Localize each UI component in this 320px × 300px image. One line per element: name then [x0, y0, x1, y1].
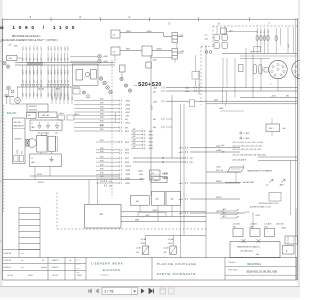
connector A15 label: [125, 166, 131, 168]
svg-text:PARTIE TOURNANTE: PARTIE TOURNANTE: [157, 272, 196, 276]
wire into connector A12: [96, 152, 119, 154]
terminal triangle 7: [47, 84, 50, 87]
svg-text:+A6M: +A6M: [287, 43, 290, 48]
svg-text:w467: w467: [214, 99, 218, 101]
bus W87: [121, 216, 206, 218]
connector A7 label: [125, 122, 130, 124]
net label =S20+S20: [133, 82, 162, 88]
wire into connector A2: [74, 104, 119, 106]
svg-text:W4: W4: [264, 30, 266, 33]
toolbar icon b: [169, 288, 175, 294]
svg-text:+4143: +4143: [255, 215, 260, 217]
svg-text:-DB2: -DB2: [264, 226, 268, 228]
svg-text:-W401: -W401: [64, 46, 66, 51]
left frame row letter D: [0, 181, 2, 183]
wire into connector A5: [74, 115, 119, 117]
vertical x253 lower: [252, 212, 254, 228]
sheet title M 1090 / 1100: [0, 25, 78, 31]
below-bus drop 8: [50, 65, 52, 84]
arrow symbol a: [266, 180, 274, 187]
svg-text:M: M: [17, 100, 19, 103]
svg-text:+GR,+GT,+GN,+GM,+GNT,+GN,+GNT,: +GR,+GT,+GN,+GM,+GNT,+GN,+GNT,+GNL: [232, 155, 266, 157]
lower LMWB box: [30, 154, 62, 167]
drop wire right label 6: [72, 97, 74, 100]
tier2 below drop 12: [64, 87, 66, 99]
header box LMB A6 text: [42, 114, 49, 117]
block -A3 drop a: [88, 180, 90, 205]
small circ a: [82, 91, 85, 94]
wire into connector A16: [96, 169, 119, 171]
motor pump outline: [25, 139, 29, 146]
svg-text:+W132: +W132: [140, 243, 145, 245]
wire label WA11: [100, 148, 104, 150]
wire into connector A1: [74, 100, 119, 102]
rail R3 wire: [206, 170, 240, 172]
wire label WA4: [100, 110, 104, 112]
bus lamp 3: [35, 62, 38, 65]
connector A4 label: [125, 112, 130, 114]
wire label column 8 lower (rotated): [51, 58, 53, 61]
grid stub a: [216, 26, 218, 35]
block -A3 top pins b: [104, 184, 111, 187]
terminal box W500: [27, 104, 48, 112]
svg-text:+W40: +W40: [125, 104, 130, 106]
svg-text:W11: W11: [125, 131, 129, 133]
svg-text:5516-051.10.00.001.005: 5516-051.10.00.001.005: [247, 269, 278, 273]
rounded box grid a: [214, 35, 220, 41]
wire label WA6: [100, 117, 104, 119]
svg-text:xxxx: xxxx: [77, 268, 80, 270]
rev table empty row line 7: [19, 243, 40, 245]
tier2 below drop 11: [60, 87, 62, 99]
svg-text:s/u: s/u: [21, 267, 23, 269]
main bus lower: [15, 64, 115, 66]
label +A142: [99, 124, 104, 127]
vertical net label W476: [152, 105, 154, 110]
terminal triangle 13: [67, 84, 70, 87]
label +A131: [255, 215, 260, 217]
device -A6 box: [130, 196, 149, 206]
tiny text under dashed box: [259, 202, 278, 205]
fuse F3: [239, 65, 244, 72]
svg-text:W76: W76: [100, 117, 104, 119]
valve drop to bus a: [34, 167, 36, 180]
title block lower line: [225, 274, 297, 276]
svg-text:REMPLACE →: REMPLACE →: [228, 269, 240, 272]
tr right drop label: [287, 43, 290, 48]
ruler tick b: [99, 17, 101, 21]
main bus upper: [15, 62, 115, 64]
svg-text:+GL5,+G,+GL5,+G,+GL5,+GL5,+G,+: +GL5,+G,+GL5,+G,+GL5,+GL5,+G,+GL5: [232, 142, 263, 144]
wire label W72: [126, 49, 131, 51]
wire into connector B5: [131, 144, 143, 146]
rev table vline x75: [74, 257, 76, 280]
tr vertical x235: [234, 58, 236, 98]
ruler number 2: [30, 15, 32, 19]
label W67: [56, 88, 60, 90]
svg-text:W9: W9: [125, 127, 128, 129]
page input dropdown sep: [131, 287, 133, 294]
xbox 2 labels left: [163, 246, 169, 254]
header box K20: [58, 115, 65, 120]
rev table empty row line 4: [19, 225, 40, 227]
top distribution box: [30, 120, 62, 130]
below-bus label 9b (rotated): [54, 80, 56, 83]
stub lines y111: [220, 110, 244, 112]
tr lamp label 1: [257, 30, 259, 33]
wire label column 3 upper (rotated): [30, 46, 32, 51]
svg-text:+A6D|: +A6D|: [279, 184, 284, 187]
wide box under A6: [138, 212, 166, 217]
terminal triangle 12: [63, 84, 66, 87]
wire W65 rail: [222, 53, 298, 55]
svg-text:· W20: · W20: [13, 45, 18, 47]
bus W87 label: [146, 215, 151, 217]
tr right drop 2: [293, 27, 295, 54]
svg-text:→A6: →A6: [282, 127, 286, 130]
drop wire right 5: [67, 87, 69, 104]
tr lamp drop 2: [260, 28, 262, 54]
drop wire right 2: [55, 87, 57, 104]
svg-text:w87 /: w87 /: [146, 215, 151, 217]
terminal triangle 3: [29, 84, 32, 87]
label +m3: [204, 39, 209, 41]
partie tournante: [157, 272, 196, 276]
svg-text:24.01.08: 24.01.08: [4, 253, 11, 255]
svg-text:DATUM: DATUM: [52, 274, 58, 277]
svg-text:GEAR23: GEAR23: [52, 266, 59, 269]
cabinet tall box: [13, 118, 26, 164]
svg-text:LM/B: LM/B: [31, 127, 35, 129]
rev row line d: [3, 270, 87, 272]
svg-text:MOTEUR: MOTEUR: [15, 139, 23, 141]
liebherr text: [91, 261, 123, 265]
ruler tick e: [248, 17, 250, 21]
tier2 below label 2 (rotated): [26, 93, 28, 96]
tiny net list row 1: [232, 142, 263, 144]
wire label column 10 upper (rotated): [58, 46, 60, 51]
rail y90.5 connector: [194, 90, 196, 92]
ruler tick a: [50, 17, 52, 21]
drop x225 to label: [225, 103, 227, 106]
wire fuse rail2: [240, 55, 298, 57]
wire xbox1 up: [145, 235, 147, 246]
below-bus label 1a (rotated): [22, 70, 24, 75]
svg-text:W13: W13: [125, 142, 129, 144]
svg-text:=SD+AD5+AD 5: =SD+AD5+AD 5: [240, 250, 253, 253]
label +A200: [139, 178, 145, 181]
connector B6 label: [148, 148, 153, 150]
block -A3 top pins a: [104, 180, 111, 183]
below-bus drop 7: [47, 65, 49, 84]
ruler number 7: [268, 22, 270, 26]
connector A14: [119, 161, 121, 163]
svg-text:+W30: +W30: [125, 170, 130, 172]
wire label WA14: [100, 160, 104, 162]
wire label column 7 lower (rotated): [48, 58, 50, 61]
svg-text:-/5: -/5: [31, 158, 33, 160]
lamp K2b: [124, 84, 127, 87]
tr vertical x227: [226, 58, 228, 88]
below-bus label 13b (rotated): [68, 80, 70, 83]
tr lamp drop 4: [267, 28, 269, 54]
svg-text:BI-DIRECTIONNEL TO 4#3: BI-DIRECTIONNEL TO 4#3: [250, 206, 271, 208]
wire C+A73: [240, 132, 250, 135]
connector B2: [143, 133, 145, 135]
wire label WA5: [100, 114, 104, 116]
rail y103: [206, 103, 298, 105]
row +A0 connector: [162, 126, 164, 128]
wire label WA3: [100, 107, 104, 109]
connector B3: [143, 137, 145, 139]
svg-text:W76: W76: [100, 181, 104, 183]
svg-text:+W47: +W47: [125, 112, 130, 114]
svg-text:+D: +D: [204, 34, 207, 36]
svg-text:+A67: +A67: [219, 107, 223, 110]
block -A3 drop b: [97, 180, 99, 205]
vertical net W476 x151: [150, 55, 152, 196]
rev date 2: [4, 260, 24, 262]
tiny text BI-DIRECTIONNEL: [250, 206, 271, 208]
bus W151: [30, 175, 120, 177]
svg-text:+W9n: +W9n: [179, 148, 184, 150]
svg-text:MÉCHOIRE DE LEVAGE 1: MÉCHOIRE DE LEVAGE 1: [12, 35, 42, 38]
display box lead: [271, 118, 273, 124]
lamp diag 1: [99, 77, 103, 81]
vert line x115: [114, 55, 116, 61]
title block vline x297: [296, 258, 298, 281]
ruler tick d: [198, 17, 200, 21]
wire label WA1: [100, 99, 104, 101]
svg-text:W22: W22: [60, 97, 62, 100]
bus lamp 2: [31, 62, 34, 65]
connector A13: [119, 157, 121, 159]
wire into connector B4: [131, 141, 143, 143]
row +A2 label: [153, 118, 156, 121]
component box x148: [146, 62, 152, 68]
wire label W473: [126, 31, 132, 33]
svg-text:+W2: +W2: [132, 129, 136, 131]
below-bus drop 5: [36, 65, 38, 84]
cabinet text MOTEUR: [15, 139, 23, 141]
net tag =S20: [162, 172, 169, 175]
wire into connector B3: [131, 137, 143, 139]
sheet right border: [297, 19, 299, 281]
svg-text:W76: W76: [100, 140, 104, 142]
connector mid label y162: [190, 162, 193, 164]
connector A16 label: [125, 170, 130, 172]
wire into connector B6: [131, 147, 143, 149]
cabinet header row: [13, 127, 26, 129]
node at W473 bend: [164, 33, 173, 37]
DB box 1 labels: [233, 223, 241, 229]
rail y90.5: [166, 90, 298, 92]
svg-text:+A20: +A20: [153, 87, 157, 90]
drop wire right label 1: [52, 97, 54, 100]
rail R1 wire: [179, 146, 241, 150]
svg-text:W17 ~B: W17 ~B: [216, 170, 224, 172]
wire label column 1 upper (rotated): [22, 46, 24, 51]
bus W151 label: [37, 174, 42, 176]
motor aux circle a: [26, 140, 29, 143]
rev cell GEAR23 b: [52, 266, 59, 269]
connector B4 label: [148, 141, 153, 143]
label +D: [204, 34, 207, 36]
J1 bottom drop: [277, 79, 279, 91]
tr lamp 4: [267, 35, 269, 41]
tier2 below label 9 (rotated): [54, 93, 56, 96]
svg-text:-A3: -A3: [99, 213, 103, 216]
svg-text:-W500 W21: -W500 W21: [29, 106, 38, 108]
svg-text:+m3: +m3: [204, 39, 209, 41]
box +A57 top: [221, 28, 227, 34]
rail y93 label: [185, 90, 189, 93]
lamp diag 2: [103, 81, 107, 85]
tr lamp 3: [263, 35, 265, 41]
wire into connector A19: [96, 182, 119, 184]
svg-text:+ A50: + A50: [152, 59, 157, 62]
connector A1 label: [125, 100, 130, 102]
svg-text:· W20: · W20: [8, 58, 13, 60]
DB1 drop: [271, 132, 273, 137]
svg-text:+W2: +W2: [132, 133, 136, 135]
svg-text:NAME: NAME: [28, 274, 34, 277]
svg-text:888 1: 888 1: [269, 128, 275, 130]
header label right a: [59, 112, 65, 115]
below-bus label 8a (rotated): [51, 70, 53, 75]
left frame row letter B: [0, 61, 2, 63]
display box DB1: [266, 124, 280, 132]
svg-text:+A6 |: +A6 |: [221, 151, 226, 154]
wire label WA18: [100, 176, 104, 178]
wire drop 9: [54, 53, 56, 63]
below-bus label 12b (rotated): [64, 80, 66, 83]
svg-text:W76: W76: [100, 114, 104, 116]
row +A7 left connector: [162, 90, 164, 92]
small circle pair a: [205, 51, 208, 54]
svg-text:W76: W76: [100, 169, 104, 171]
net tag =S22: [162, 177, 169, 180]
xbox 1 digits: [143, 248, 147, 254]
below-bus label 1b (rotated): [22, 80, 24, 83]
wire label column 5 lower (rotated): [37, 58, 39, 61]
wire top right w65: [227, 31, 258, 33]
cabinet pin box a: [14, 155, 18, 162]
terminal triangle 5: [36, 84, 39, 87]
label +A52: [4, 93, 8, 96]
svg-text:W76: W76: [100, 99, 104, 101]
svg-text:TRANSMISSION RADIO=: TRANSMISSION RADIO=: [237, 245, 261, 248]
drop wire right 3: [59, 87, 61, 104]
svg-text:W76: W76: [100, 129, 104, 131]
wire drop 11: [60, 53, 62, 63]
cabinet pin box b: [19, 155, 23, 162]
rev cell GEAR23 a: [52, 259, 59, 262]
left rail end label a: [221, 145, 225, 147]
connector A18: [119, 177, 121, 179]
svg-text:+A0: +A0: [153, 126, 156, 129]
connector A2 label: [125, 104, 130, 106]
wire into connector B1: [131, 130, 143, 132]
wire label column 6 lower (rotated): [41, 58, 43, 61]
connector A11 label: [125, 150, 129, 152]
wire to stack X2 lower: [150, 57, 172, 59]
rail y97.5 label W6: [286, 96, 289, 98]
lamp K2a: [120, 77, 123, 80]
row +A2 connector: [162, 118, 164, 120]
connector A10 label: [125, 142, 129, 144]
motor aux circle b: [26, 143, 29, 146]
motor M lead: [17, 87, 19, 98]
wire drop 2: [25, 53, 27, 63]
svg-text:W67: W67: [56, 88, 60, 90]
svg-text:W450: W450: [17, 150, 19, 154]
connector A7: [119, 121, 121, 123]
svg-text:+A13: +A13: [153, 100, 157, 103]
generator G1 lead: [8, 90, 10, 96]
wire xbox2 up: [172, 235, 174, 246]
btn prev page: [96, 289, 99, 293]
junction dot y162: [162, 161, 163, 162]
wire into connector A4: [74, 111, 119, 113]
svg-text:W76: W76: [100, 156, 104, 158]
svg-text:+A2: +A2: [153, 118, 156, 121]
svg-text:W6: W6: [286, 96, 289, 98]
wire into connector A7: [74, 122, 119, 124]
rev cell GL: [42, 260, 44, 262]
header box small text: [28, 114, 32, 117]
wire label column 2 upper (rotated): [26, 46, 28, 51]
lamp H1b: [6, 65, 9, 68]
rail R5 wire: [179, 197, 241, 201]
below-bus label 9a (rotated): [54, 70, 56, 75]
connector A2: [119, 103, 121, 105]
lamp diag 3: [106, 86, 110, 90]
box 5b: [111, 30, 120, 38]
tr vertical x253: [252, 54, 254, 98]
below-bus label 12a (rotated): [64, 70, 66, 75]
small circle pair b: [209, 51, 212, 54]
svg-text:GEAR23: GEAR23: [52, 259, 59, 262]
connector mid y162: [185, 161, 187, 163]
long vertical x184: [183, 104, 185, 236]
below-bus label 4a (rotated): [33, 70, 35, 75]
tier2 below label 7 (rotated): [48, 93, 50, 96]
below-bus drop 12: [64, 65, 66, 84]
drop wire right 1: [51, 87, 53, 104]
svg-text:+W2: +W2: [132, 140, 136, 142]
svg-text:+A75: +A75: [222, 215, 226, 218]
rail y97.5: [240, 97, 298, 99]
device -A2b box: [166, 191, 180, 205]
svg-text:W23: W23: [22, 151, 24, 154]
dashed enclosure lower: [57, 193, 206, 230]
wire drop 8: [50, 53, 52, 63]
wire label column 3 lower (rotated): [30, 58, 32, 61]
below-bus label 10a (rotated): [58, 70, 60, 75]
connector A12 label: [125, 153, 129, 155]
label +A5+A6: [38, 87, 45, 90]
bus W86 label: [135, 220, 140, 222]
device -A2a drop a: [157, 205, 159, 221]
svg-text:+2: +2: [270, 84, 272, 86]
page input dropdown arrow: [133, 291, 136, 293]
connector stack X2: [172, 49, 178, 60]
tr lamp drop 1: [256, 28, 258, 54]
svg-text:s/u: s/u: [69, 260, 71, 262]
svg-text:W21: W21: [56, 97, 58, 100]
svg-text:W76: W76: [100, 164, 104, 166]
